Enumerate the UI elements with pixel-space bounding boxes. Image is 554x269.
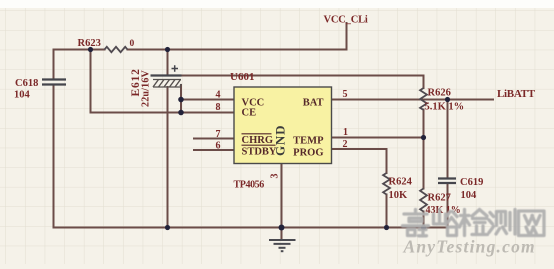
- wire top rail left segment: [54, 49, 105, 51]
- svg-text:104: 104: [14, 90, 31, 101]
- svg-text:CHRG: CHRG: [242, 135, 274, 146]
- wire CE pin 8 net: [91, 112, 235, 114]
- watermark char ce: [489, 210, 515, 235]
- svg-text:R627: R627: [428, 193, 451, 204]
- wire hatch corner drop: [180, 85, 182, 113]
- junction VCC pin 4 node: [178, 97, 184, 103]
- wire VCC pin 4 net: [181, 99, 234, 101]
- junction R623 left node: [88, 47, 93, 52]
- svg-text:2: 2: [343, 139, 348, 150]
- wire TEMP pin 1 net: [332, 137, 424, 139]
- svg-text:PROG: PROG: [293, 147, 323, 158]
- svg-text:104: 104: [461, 190, 478, 201]
- svg-text:10K: 10K: [389, 190, 409, 201]
- pin name STDBY with overline: [242, 145, 277, 157]
- svg-text:4: 4: [216, 90, 221, 101]
- watermark char jian: [460, 210, 488, 236]
- capacitor C619: [438, 179, 456, 184]
- wire VCC_CLi riser: [346, 23, 348, 50]
- wire C619 bottom lead: [447, 184, 449, 228]
- junction E612 ground node: [165, 225, 170, 230]
- wire R623 left drop: [90, 50, 92, 113]
- wire E612 bottom lead: [167, 87, 169, 228]
- junction R624 ground node: [384, 225, 389, 230]
- wire PROG pin 2 net: [332, 149, 387, 173]
- watermark chinese text: [403, 210, 545, 237]
- svg-text:5.1K 1%: 5.1K 1%: [425, 102, 465, 113]
- pin name CHRG with overline: [242, 134, 274, 146]
- wire R624 bottom lead: [386, 195, 388, 228]
- svg-text:AnyTesting.com: AnyTesting.com: [403, 237, 536, 257]
- watermark char yu: [434, 210, 458, 236]
- svg-text:7: 7: [216, 129, 221, 140]
- junction GND pin ground node: [279, 225, 285, 231]
- op-amp U601 body: [234, 87, 332, 164]
- svg-text:LiBATT: LiBATT: [497, 88, 536, 100]
- wire top rail right segment: [128, 49, 347, 51]
- svg-text:6: 6: [216, 141, 221, 152]
- svg-text:BAT: BAT: [303, 97, 324, 108]
- ground: [269, 240, 296, 251]
- resistor R623: [105, 47, 128, 52]
- resistor R626: [420, 88, 427, 110]
- wire E612 top lead: [167, 50, 169, 76]
- wire R627 bottom lead: [423, 212, 425, 228]
- svg-text:C619: C619: [460, 177, 483, 188]
- capacitor E612: [151, 65, 182, 87]
- svg-text:3: 3: [270, 174, 281, 179]
- svg-text:5: 5: [343, 89, 348, 100]
- junction R627 ground node: [421, 225, 426, 230]
- svg-text:TEMP: TEMP: [293, 136, 324, 147]
- svg-text:GND: GND: [273, 125, 288, 156]
- junction E612 top node: [165, 47, 170, 52]
- wire GND pin 3 lead: [281, 164, 283, 241]
- wire pin 6 stub: [194, 149, 234, 151]
- svg-text:VCC_CLi: VCC_CLi: [324, 15, 368, 26]
- svg-text:R626: R626: [428, 88, 451, 99]
- wire C618 bottom lead: [53, 85, 55, 228]
- resistor R627: [420, 189, 427, 212]
- junction TEMP pin node: [421, 135, 426, 140]
- wire bottom ground rail: [54, 227, 448, 229]
- svg-text:CE: CE: [242, 108, 257, 119]
- wire pin 7 stub: [194, 138, 234, 140]
- junction LiBATT node: [445, 97, 450, 102]
- junction CE pin 8 node: [178, 110, 184, 116]
- wire C619 top lead: [447, 100, 449, 179]
- wire R626 bottom chain: [423, 110, 425, 189]
- wire C618 top lead: [53, 50, 55, 80]
- capacitor C618: [42, 80, 66, 85]
- wire E612 to R626 feed: [181, 76, 424, 89]
- svg-text:1: 1: [343, 127, 348, 138]
- svg-text:TP4056: TP4056: [234, 180, 265, 191]
- wire BAT LiBATT net: [332, 99, 494, 101]
- svg-text:R623: R623: [78, 38, 101, 49]
- svg-text:U601: U601: [230, 71, 254, 83]
- svg-text:0: 0: [130, 39, 135, 49]
- svg-text:22u/16V: 22u/16V: [141, 69, 152, 107]
- svg-text:8: 8: [216, 102, 221, 113]
- watermark char jia: [403, 210, 429, 237]
- watermark char wang: [519, 211, 545, 236]
- svg-text:R624: R624: [389, 177, 413, 188]
- resistor R624: [383, 173, 390, 195]
- svg-text:C618: C618: [15, 78, 38, 89]
